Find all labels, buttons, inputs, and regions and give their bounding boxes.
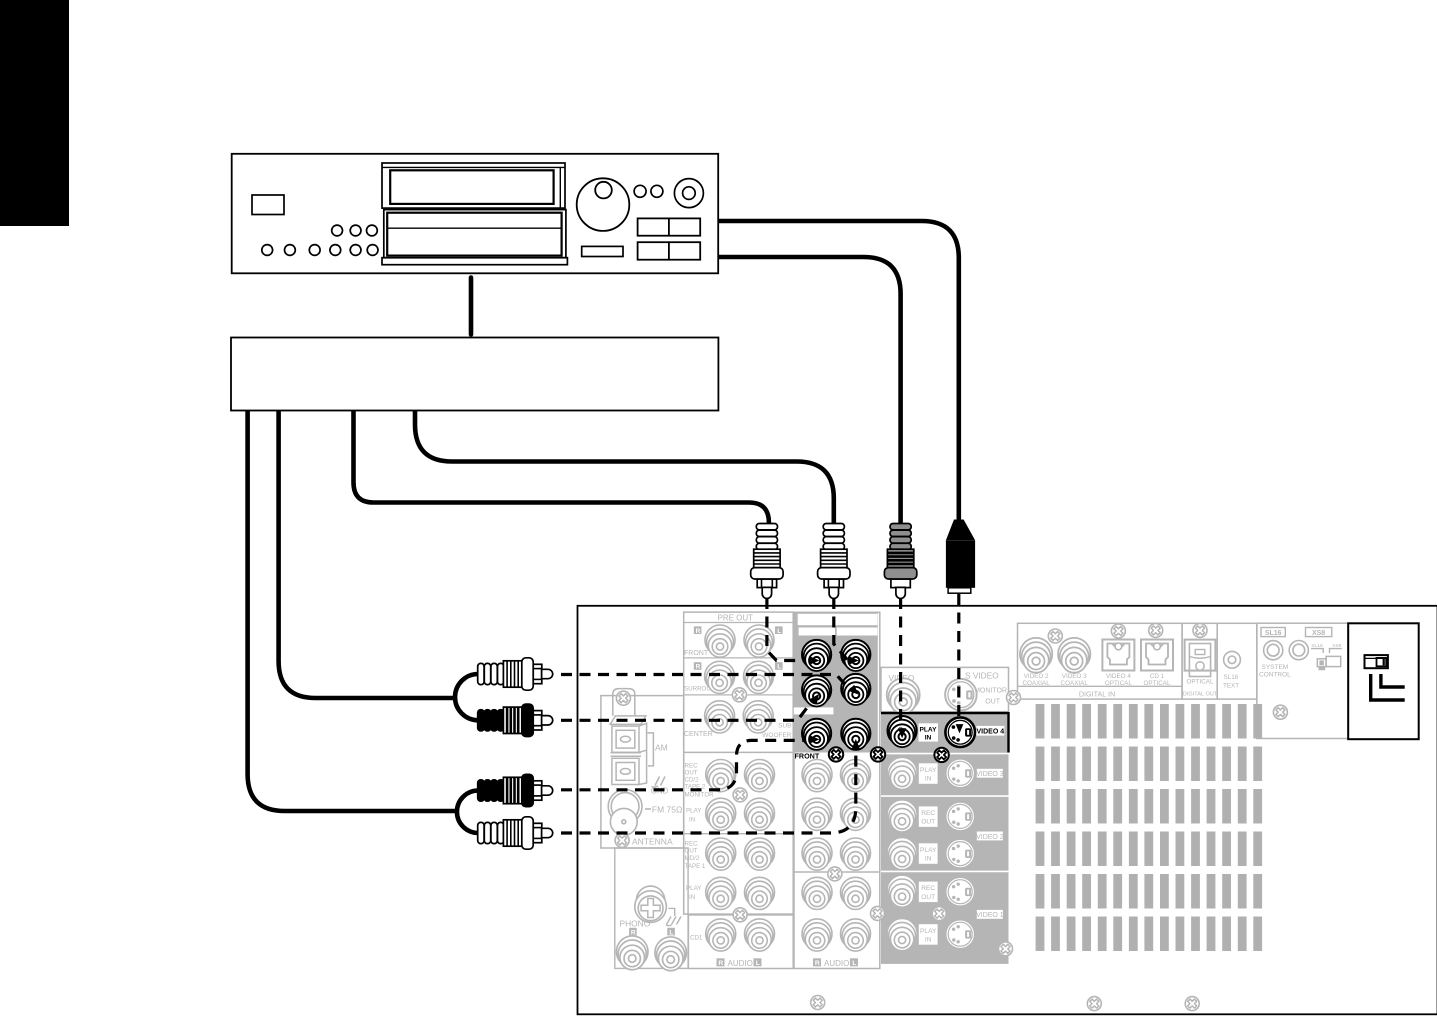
svg-text:PLAY: PLAY bbox=[920, 847, 937, 854]
screw (black) bbox=[871, 747, 885, 761]
svg-text:CD 1: CD 1 bbox=[1150, 673, 1165, 680]
arrow into 6ch row2 R jack bbox=[810, 691, 823, 704]
svg-text:AUDIO: AUDIO bbox=[728, 959, 753, 968]
dashed line black plug pair1 to surround L jack bbox=[561, 701, 813, 721]
phono GND thumbscrew bbox=[635, 886, 667, 922]
toslink DIGITAL IN VIDEO 4 OPTICAL bbox=[1102, 640, 1134, 671]
jack audio row2 L bbox=[841, 798, 871, 830]
svg-text:AUDIO: AUDIO bbox=[824, 959, 849, 968]
svg-text:OUT: OUT bbox=[685, 770, 698, 777]
svg-text:IN: IN bbox=[925, 937, 932, 944]
svg-text:PLAY: PLAY bbox=[686, 808, 701, 815]
jack 6ch input FRONT L bbox=[841, 719, 870, 750]
phono ground bracket and symbol bbox=[666, 908, 681, 925]
connecting component box bbox=[231, 338, 718, 411]
jack PRE OUT SURROUND L bbox=[744, 661, 774, 693]
FM 75ohm coax jack bbox=[608, 790, 651, 836]
arrow into VIDEO 4 PLAY IN jack bbox=[898, 728, 906, 738]
s-video cable D bbox=[718, 221, 959, 520]
svg-text:VIDEO 4: VIDEO 4 bbox=[976, 729, 1004, 736]
jack MONITOR OUT video bbox=[887, 678, 920, 713]
jack audio row4 L bbox=[841, 877, 871, 909]
svg-text:VIDEO 3: VIDEO 3 bbox=[976, 771, 1004, 778]
preout jacks bbox=[705, 625, 735, 657]
screw bbox=[1149, 623, 1163, 637]
AM bracket bbox=[648, 733, 654, 766]
screw bbox=[1111, 624, 1125, 638]
s-video jack VIDEO 2 REC bbox=[946, 802, 975, 831]
video input column bbox=[881, 712, 1009, 964]
dashed line white plug pair1 to surround jack bbox=[561, 675, 850, 690]
svg-text:AM: AM bbox=[655, 743, 668, 753]
jack PRE OUT CENTER bbox=[705, 701, 735, 733]
link wire deck to box bbox=[469, 278, 474, 335]
cassette door bbox=[384, 210, 566, 258]
s-video jack VIDEO 1 PLAY bbox=[946, 920, 975, 949]
6ch jacks (black) bbox=[802, 640, 831, 671]
AM terminal right side face bbox=[639, 723, 647, 784]
svg-text:REC: REC bbox=[921, 810, 935, 817]
phono block bbox=[615, 848, 688, 971]
screw bbox=[733, 908, 747, 922]
svg-text:R: R bbox=[815, 960, 820, 967]
jack 6ch input row2 L bbox=[841, 674, 870, 705]
svg-text:IN: IN bbox=[689, 817, 695, 824]
ventilation grille bbox=[1036, 704, 1263, 951]
svg-text:R: R bbox=[718, 960, 723, 967]
vertical plug 2 white bbox=[818, 524, 850, 599]
svg-text:WOOFER: WOOFER bbox=[762, 732, 792, 739]
svg-text:PHONO: PHONO bbox=[620, 919, 651, 929]
horizontal plug 4 white bbox=[478, 817, 553, 849]
jack REC OUT CD/2 R bbox=[706, 760, 736, 792]
R/L tags bbox=[694, 626, 702, 634]
s-video jack VIDEO 4 bbox=[945, 717, 975, 747]
svg-text:TAPE 1: TAPE 1 bbox=[685, 863, 706, 870]
phono jack L bbox=[655, 937, 687, 971]
svg-text:PRE OUT: PRE OUT bbox=[718, 614, 754, 623]
jack 6ch input row1 L bbox=[841, 640, 870, 671]
arrow into 6ch row2 L jack bbox=[848, 685, 861, 698]
svg-text:VIDEO 2: VIDEO 2 bbox=[1024, 673, 1049, 680]
dashed line white plug pair2 to sub woofer jack bbox=[561, 748, 856, 833]
jack CD1 R bbox=[706, 919, 736, 951]
horizontal plug 1 white bbox=[478, 658, 553, 690]
digital in block bbox=[1018, 623, 1183, 699]
screw bbox=[1193, 623, 1207, 637]
s-video jack VIDEO 1 REC bbox=[946, 877, 975, 906]
buttons bbox=[638, 218, 701, 235]
svg-text:PLAY: PLAY bbox=[920, 767, 937, 774]
R AUDIO L bottom label bbox=[717, 958, 725, 966]
AM terminal 2 bbox=[611, 753, 642, 756]
svg-text:S VIDEO: S VIDEO bbox=[965, 671, 999, 681]
svg-text:PLAY: PLAY bbox=[920, 726, 938, 733]
svg-text:OPTICAL: OPTICAL bbox=[1144, 680, 1171, 687]
svg-text:IN: IN bbox=[925, 735, 932, 742]
VIDEO 4 row bbox=[888, 716, 917, 747]
screw bbox=[732, 688, 746, 702]
jack audio row4 R bbox=[802, 877, 832, 909]
svg-text:CENTER: CENTER bbox=[684, 731, 713, 738]
dashed line s-video plug to video4 s jack bbox=[957, 594, 960, 723]
svg-text:IN: IN bbox=[689, 894, 695, 901]
SL16 TEXT jack bbox=[1217, 623, 1257, 699]
jack DIGITAL IN VIDEO 2 COAXIAL bbox=[1020, 638, 1052, 673]
svg-text:REC: REC bbox=[685, 763, 699, 770]
s-video jack MONITOR OUT bbox=[945, 679, 977, 711]
digital out block bbox=[1182, 623, 1218, 699]
screw (black) bbox=[829, 747, 843, 761]
toslink DIGITAL IN CD 1 OPTICAL bbox=[1141, 640, 1173, 671]
MD deck (source component) front panel bbox=[232, 154, 719, 273]
antenna block bbox=[601, 689, 684, 848]
svg-text:SUB: SUB bbox=[778, 723, 791, 730]
svg-text:OUT: OUT bbox=[921, 819, 935, 826]
C-loop pair 1 bbox=[455, 674, 478, 720]
screw bbox=[828, 867, 842, 881]
dashed line video plug to video4 play in bbox=[899, 598, 902, 728]
svg-text:OUT: OUT bbox=[921, 894, 935, 901]
jack 6ch input FRONT R bbox=[802, 719, 831, 750]
arrow into 6ch row1 R jack bbox=[810, 656, 820, 664]
audio pair cable F bbox=[248, 411, 457, 811]
svg-text:VIDEO 3: VIDEO 3 bbox=[1062, 673, 1087, 680]
screw bbox=[1273, 705, 1287, 719]
audio cable A bbox=[354, 411, 769, 524]
jack audio row1 L bbox=[841, 760, 871, 792]
jack PLAY IN 2 L bbox=[745, 877, 775, 909]
svg-text:PLAY: PLAY bbox=[920, 928, 937, 935]
antenna block texts bbox=[632, 743, 682, 847]
screw bbox=[1185, 997, 1199, 1011]
VIDEO 4 band black border bbox=[881, 712, 1009, 714]
system control block bbox=[1257, 623, 1348, 738]
arrow into VIDEO 4 s-video jack bbox=[956, 724, 964, 733]
jack PRE OUT FRONT L bbox=[744, 625, 774, 657]
svg-text:L: L bbox=[669, 929, 673, 936]
dashed hookup lines bbox=[561, 594, 959, 833]
svg-text:CD1: CD1 bbox=[690, 935, 703, 942]
svg-text:FRONT: FRONT bbox=[684, 650, 709, 657]
jack CD1 L bbox=[745, 919, 775, 951]
vertical plug 4 black s-video bbox=[946, 520, 975, 594]
s-video jack VIDEO 2 PLAY bbox=[946, 839, 975, 868]
audio cable B bbox=[415, 411, 834, 524]
screw bbox=[811, 996, 825, 1010]
svg-text:CD/2: CD/2 bbox=[685, 777, 700, 784]
panel screws gray bbox=[615, 623, 1287, 1010]
horizontal plug 2 black bbox=[478, 704, 553, 736]
svg-text:MONITOR: MONITOR bbox=[685, 792, 715, 799]
jog knob bbox=[577, 178, 630, 231]
svg-text:FM 75Ω: FM 75Ω bbox=[652, 805, 682, 815]
svg-text:OPTICAL: OPTICAL bbox=[1187, 679, 1214, 686]
svg-text:MONITOR: MONITOR bbox=[974, 688, 1007, 695]
chassis ground mark bbox=[652, 777, 666, 788]
jack audio row3 R bbox=[802, 838, 832, 870]
jack DIGITAL IN VIDEO 3 COAXIAL bbox=[1058, 638, 1090, 673]
6ch input highlighted box bbox=[793, 612, 878, 760]
svg-text:VIDEO 1: VIDEO 1 bbox=[976, 912, 1004, 919]
svg-text:REC: REC bbox=[921, 885, 935, 892]
page margin black bar bbox=[0, 0, 69, 226]
svg-text:PLAY: PLAY bbox=[686, 885, 701, 892]
screw bbox=[615, 833, 629, 847]
svg-text:R: R bbox=[696, 664, 701, 671]
vertical plug 3 gray bbox=[884, 524, 916, 599]
arrows into jacks bbox=[810, 656, 964, 749]
jack REC OUT MD/2 R bbox=[706, 838, 736, 870]
front selector box bbox=[1348, 623, 1419, 739]
display window bbox=[382, 163, 565, 208]
screw bbox=[1048, 629, 1062, 643]
arrow into 6ch row1 L jack bbox=[849, 656, 859, 664]
svg-text:REC: REC bbox=[685, 841, 699, 848]
jack PRE OUT SUB WOOFER bbox=[743, 701, 773, 733]
screw bbox=[871, 906, 885, 920]
svg-text:L: L bbox=[852, 960, 856, 967]
svg-text:IN: IN bbox=[925, 856, 932, 863]
screw bbox=[999, 942, 1013, 956]
jack VIDEO 1 PLAY IN bbox=[887, 919, 917, 951]
svg-text:TEXT: TEXT bbox=[1223, 683, 1239, 690]
svg-text:L: L bbox=[756, 960, 760, 967]
s-video jack VIDEO 3 bbox=[946, 759, 975, 788]
jack audio row2 R bbox=[802, 798, 832, 830]
middle audio column bbox=[794, 612, 880, 968]
svg-text:SL16: SL16 bbox=[1265, 630, 1282, 637]
jack PLAY IN 2 R bbox=[706, 877, 736, 909]
jack audio row5 R bbox=[802, 919, 832, 951]
video cable C bbox=[718, 257, 900, 524]
jack PRE OUT SURROUND R bbox=[705, 661, 735, 693]
audio pair cable E bbox=[279, 411, 457, 698]
svg-text:OPTICAL: OPTICAL bbox=[1105, 680, 1132, 687]
jack REC OUT MD/2 L bbox=[745, 838, 775, 870]
svg-text:DIGITAL IN: DIGITAL IN bbox=[1079, 689, 1115, 698]
dashed line plug2 to front R jack bbox=[834, 598, 848, 661]
panel screws black bbox=[829, 747, 949, 762]
screw (black) bbox=[934, 748, 948, 762]
screw bbox=[932, 907, 946, 921]
jack PLAY IN L bbox=[745, 798, 775, 830]
svg-text:OUT: OUT bbox=[985, 699, 1001, 706]
arrow into 6ch FRONT R jack bbox=[810, 735, 820, 743]
svg-text:DIGITAL OUT: DIGITAL OUT bbox=[1183, 692, 1218, 698]
svg-text:L: L bbox=[777, 628, 781, 635]
VIDEO 2 rows bbox=[887, 800, 917, 832]
svg-text:VIDEO 4: VIDEO 4 bbox=[1106, 673, 1131, 680]
dashed line black plug pair2 to center jack bbox=[561, 740, 806, 789]
svg-text:L: L bbox=[777, 664, 781, 671]
screw bbox=[1087, 997, 1101, 1011]
screw bbox=[1007, 691, 1021, 705]
svg-text:FRONT: FRONT bbox=[795, 752, 820, 761]
jack audio row3 L bbox=[841, 838, 871, 870]
C-loop pair 2 bbox=[457, 791, 478, 834]
pre out / tape block bbox=[684, 612, 794, 968]
svg-text:IN: IN bbox=[925, 776, 932, 783]
svg-text:CONTROL: CONTROL bbox=[1259, 672, 1291, 679]
svg-text:XS8: XS8 bbox=[1312, 630, 1325, 637]
screw bbox=[733, 788, 747, 802]
jack 6ch input row2 R bbox=[802, 675, 831, 706]
svg-text:COAXIAL: COAXIAL bbox=[1061, 680, 1089, 687]
svg-text:VIDEO 2: VIDEO 2 bbox=[976, 834, 1004, 841]
svg-text:OUT: OUT bbox=[685, 848, 698, 855]
dashed line plug1 to front L jack bbox=[767, 598, 806, 661]
svg-text:COAXIAL: COAXIAL bbox=[1022, 680, 1050, 687]
jack audio row5 L bbox=[841, 919, 871, 951]
jack REC OUT CD/2 L bbox=[745, 760, 775, 792]
AM terminal mount tab bbox=[613, 689, 635, 716]
monitor out box bbox=[881, 667, 1009, 713]
phono jack R bbox=[616, 936, 648, 970]
svg-text:ANTENNA: ANTENNA bbox=[632, 837, 673, 847]
VIDEO 1 rows bbox=[887, 875, 917, 907]
VIDEO 3 row bbox=[887, 757, 917, 789]
jack VIDEO 2 PLAY IN bbox=[887, 838, 917, 870]
receiver rear panel bbox=[578, 606, 1437, 1015]
vertical plug 1 white bbox=[751, 524, 783, 599]
jack PLAY IN R bbox=[706, 798, 736, 830]
AM terminal 3D top face bbox=[610, 716, 646, 725]
horizontal plug 3 black bbox=[478, 774, 553, 806]
svg-text:SYSTEM: SYSTEM bbox=[1262, 664, 1289, 671]
svg-text:MD/2: MD/2 bbox=[685, 855, 700, 862]
svg-text:SL16: SL16 bbox=[1224, 674, 1239, 681]
AM terminal 1 bbox=[612, 726, 639, 752]
arrow into 6ch FRONT L jack bbox=[852, 739, 860, 749]
svg-text:R: R bbox=[696, 628, 701, 635]
screw bbox=[616, 691, 630, 705]
jack audio row1 R bbox=[802, 760, 832, 792]
